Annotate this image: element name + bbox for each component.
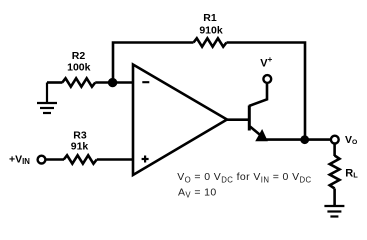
node A (junction of R1, R2, inverting input) (108, 78, 117, 87)
terminal +VIN (38, 156, 46, 164)
resistor R3 (64, 155, 97, 163)
svg-text:91k: 91k (71, 141, 89, 153)
op-amp U1 (133, 65, 227, 176)
node B (junction of feedback and output) (300, 135, 309, 144)
ground (right, below RL) (324, 206, 344, 217)
svg-text:VO = 0 VDC for VIN = 0 VDC: VO = 0 VDC for VIN = 0 VDC (177, 171, 311, 184)
wire: top feedback left segment from node A up and right to R1 (113, 43, 194, 84)
transistor Q1 (249, 84, 267, 141)
ground (left, below R2) (37, 83, 57, 114)
terminal VO (331, 136, 339, 144)
wire: top feedback right segment from R1 down to output node (227, 43, 306, 140)
resistor R2 (62, 78, 95, 86)
svg-text:R2: R2 (72, 50, 86, 62)
collector lead (249, 84, 267, 107)
resistor R1 (194, 38, 227, 46)
base bar (248, 106, 251, 131)
wire: R3 to non-inverting input of op-amp (97, 158, 133, 161)
emitter lead (250, 127, 262, 137)
pin label: inverting input (-) (142, 81, 149, 83)
svg-text:100k: 100k (67, 62, 91, 74)
pin label: non-inverting input (+) (142, 156, 149, 163)
wire: emitter to output terminal (264, 138, 331, 141)
wire: R2 to inverting input of op-amp (95, 81, 133, 84)
terminal V+ (263, 75, 271, 83)
resistor RL (330, 156, 340, 189)
svg-text:AV = 10: AV = 10 (178, 186, 217, 199)
wire: +VIN terminal to R3 (45, 158, 64, 161)
svg-text:910k: 910k (199, 25, 223, 37)
wire: op-amp output to transistor base (226, 118, 249, 121)
emitter arrowhead (256, 130, 267, 141)
svg-text:R1: R1 (203, 12, 217, 24)
wire: ground to R2 (47, 81, 63, 84)
wire: VO terminal down to RL (333, 144, 336, 157)
wire: RL down to ground (333, 189, 336, 207)
